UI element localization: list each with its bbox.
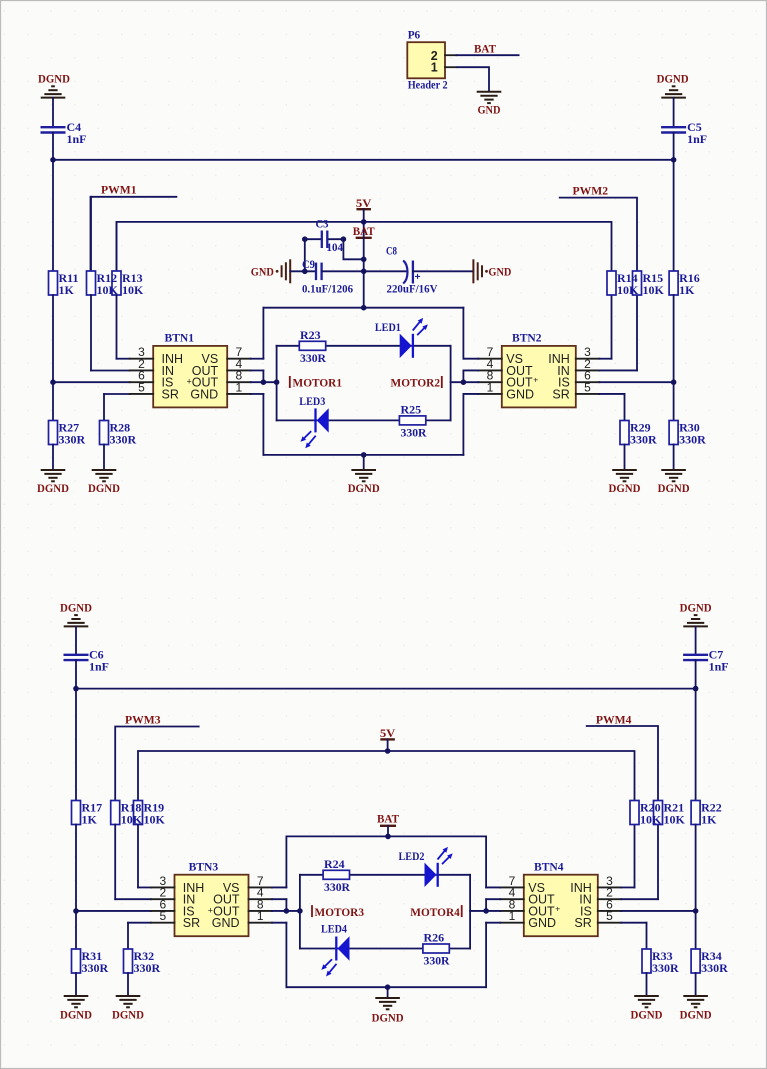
wire <box>673 382 675 420</box>
svg-text:1K: 1K <box>679 283 695 297</box>
LED LED4 <box>321 922 350 977</box>
svg-text:DGND: DGND <box>657 72 689 86</box>
resistor R12 <box>87 271 119 297</box>
wire <box>462 370 464 382</box>
svg-text:GND: GND <box>478 103 501 117</box>
wire <box>328 239 364 259</box>
svg-text:MOTOR3: MOTOR3 <box>315 905 365 919</box>
ground DGND <box>609 470 641 495</box>
resistor R31 <box>72 949 109 975</box>
junction <box>73 686 79 692</box>
wire <box>52 98 54 127</box>
wire BAT <box>363 238 365 308</box>
wire <box>104 393 130 395</box>
svg-text:DGND: DGND <box>348 481 380 495</box>
net label MOTOR4 <box>410 905 461 919</box>
svg-text:DGND: DGND <box>37 481 69 495</box>
pin 6 of BTN4 <box>598 897 622 911</box>
wire <box>116 295 118 359</box>
power port GND (left) <box>251 259 290 283</box>
wire IN <box>621 898 658 900</box>
ground DGND <box>631 996 663 1022</box>
svg-text:C9: C9 <box>302 257 315 271</box>
junction <box>361 452 367 458</box>
pin 2 of BTN2 <box>576 357 600 371</box>
ground DGND <box>372 998 404 1025</box>
wire BAT <box>387 826 389 837</box>
resistor R18 <box>111 800 143 826</box>
svg-text:C3: C3 <box>316 217 329 231</box>
wire <box>646 973 648 996</box>
power port BAT <box>377 812 399 826</box>
svg-text:SR: SR <box>574 916 591 930</box>
resistor R23 <box>299 328 326 365</box>
svg-text:1K: 1K <box>59 283 75 297</box>
IC BTN4 <box>524 859 598 936</box>
svg-text:104: 104 <box>327 240 344 254</box>
wire <box>290 270 315 272</box>
svg-text:DGND: DGND <box>631 1008 663 1022</box>
svg-text:5: 5 <box>584 380 591 394</box>
pin 1 of BTN2 <box>478 380 502 394</box>
resistor R11 <box>49 271 79 297</box>
svg-text:5: 5 <box>159 909 166 923</box>
svg-text:330R: 330R <box>82 961 109 975</box>
junction <box>385 834 391 840</box>
wire 5V rail <box>138 751 635 801</box>
wire IS <box>621 910 695 912</box>
junction <box>302 269 308 275</box>
svg-text:SR: SR <box>162 387 179 401</box>
pin 3 of BTN2 <box>576 345 600 359</box>
svg-text:330R: 330R <box>701 961 728 975</box>
svg-text:BAT: BAT <box>474 42 496 56</box>
junction <box>297 908 303 914</box>
wire <box>673 295 675 382</box>
wire <box>624 394 626 421</box>
junction <box>361 269 367 275</box>
wire IN <box>599 369 637 371</box>
wire <box>277 345 451 347</box>
svg-text:1nF: 1nF <box>67 132 87 146</box>
capacitor C6 <box>64 647 110 673</box>
svg-text:1: 1 <box>431 61 438 75</box>
wire <box>695 825 697 911</box>
IC BTN2 <box>502 331 576 408</box>
wire <box>128 922 151 924</box>
pin 3 of BTN1 <box>130 345 154 359</box>
wire <box>450 346 452 421</box>
wire <box>387 987 389 998</box>
junction <box>361 219 367 225</box>
wire PWM4 <box>586 726 658 801</box>
junction <box>341 236 347 242</box>
svg-text:330R: 330R <box>630 432 657 446</box>
wire <box>462 308 464 359</box>
svg-text:5V: 5V <box>380 726 396 740</box>
svg-text:10K: 10K <box>144 812 166 826</box>
svg-text:1: 1 <box>487 380 494 394</box>
junction <box>261 379 267 385</box>
pin 7 of BTN4 <box>500 874 524 888</box>
svg-text:+: + <box>208 906 213 916</box>
svg-text:C8: C8 <box>386 244 397 258</box>
wire <box>322 270 364 272</box>
svg-text:R25: R25 <box>401 402 422 416</box>
wire MOTOR3 <box>272 910 300 912</box>
svg-text:330R: 330R <box>110 432 137 446</box>
junction <box>50 379 56 385</box>
svg-text:DGND: DGND <box>658 481 690 495</box>
wire <box>285 923 287 988</box>
ground DGND (bottom left) <box>64 615 89 626</box>
resistor R33 <box>642 949 679 975</box>
wire <box>363 209 365 222</box>
wire <box>305 239 322 271</box>
wire OUT <box>463 369 478 371</box>
wire <box>127 923 129 949</box>
svg-text:BAT: BAT <box>353 224 375 238</box>
junction <box>385 984 391 990</box>
pin 1 of BTN4 <box>500 909 524 923</box>
wire GND <box>272 922 286 924</box>
svg-text:Header 2: Header 2 <box>408 78 448 92</box>
wire <box>469 875 471 949</box>
pin 7 of BTN1 <box>227 345 251 359</box>
wire <box>52 382 54 420</box>
wire <box>103 445 105 471</box>
wire <box>52 445 54 471</box>
wire <box>262 394 264 455</box>
svg-text:10K: 10K <box>97 283 119 297</box>
junction <box>693 686 699 692</box>
svg-text:1nF: 1nF <box>89 659 109 673</box>
wire <box>277 419 451 421</box>
pin 8 of BTN4 <box>500 897 524 911</box>
wire <box>127 973 129 996</box>
resistor R27 <box>49 420 86 446</box>
svg-text:PWM1: PWM1 <box>101 183 137 197</box>
svg-text:LED1: LED1 <box>375 320 401 334</box>
resistor R28 <box>100 420 137 446</box>
svg-text:1nF: 1nF <box>687 132 707 146</box>
svg-text:10K: 10K <box>121 812 143 826</box>
svg-text:DGND: DGND <box>609 481 641 495</box>
resistor R29 <box>620 420 657 446</box>
resistor R17 <box>72 800 103 826</box>
svg-text:BTN1: BTN1 <box>165 331 195 345</box>
svg-text:330R: 330R <box>59 432 86 446</box>
ground GND (P6) <box>477 92 502 117</box>
wire <box>262 370 264 382</box>
resistor R19 <box>134 800 166 826</box>
wire PWM3 <box>115 727 199 801</box>
pin 8 of BTN2 <box>478 369 502 383</box>
svg-text:R24: R24 <box>324 857 345 871</box>
wire DGND bottom rail <box>263 454 463 456</box>
power port 5V <box>356 196 372 210</box>
wire <box>363 455 365 470</box>
svg-text:MOTOR2: MOTOR2 <box>391 376 441 390</box>
capacitor C7 <box>683 647 729 673</box>
wire <box>364 270 407 272</box>
wire <box>646 923 648 949</box>
svg-text:1: 1 <box>236 380 243 394</box>
ground DGND <box>680 996 712 1022</box>
resistor R32 <box>124 949 161 975</box>
svg-text:DGND: DGND <box>112 1008 144 1022</box>
junction <box>50 157 56 163</box>
wire <box>76 910 151 912</box>
svg-text:BTN2: BTN2 <box>512 331 542 345</box>
svg-text:5V: 5V <box>356 196 372 210</box>
ground DGND <box>112 996 144 1022</box>
wire <box>462 394 464 455</box>
svg-text:PWM2: PWM2 <box>573 184 609 198</box>
wire <box>75 689 77 801</box>
connector P6 <box>407 28 447 92</box>
wire MOTOR4 <box>470 910 500 912</box>
wire <box>387 739 389 751</box>
svg-text:1K: 1K <box>82 812 98 826</box>
svg-text:LED3: LED3 <box>299 394 325 408</box>
resistor R24 <box>323 857 350 894</box>
pin 7 of BTN2 <box>478 345 502 359</box>
wire <box>634 825 636 888</box>
svg-text:DGND: DGND <box>60 601 92 615</box>
pin 4 of BTN4 <box>500 886 524 900</box>
pin 5 of BTN3 <box>151 909 175 923</box>
wire INH <box>621 886 634 888</box>
svg-text:1: 1 <box>509 909 516 923</box>
junction <box>461 379 467 385</box>
svg-text:+: + <box>533 375 538 385</box>
resistor R22 <box>691 800 722 826</box>
junction <box>284 908 290 914</box>
pin 6 of BTN3 <box>151 897 175 911</box>
svg-text:BAT: BAT <box>377 812 399 826</box>
svg-text:R23: R23 <box>300 328 321 342</box>
svg-text:PWM3: PWM3 <box>125 713 161 727</box>
wire <box>137 825 139 888</box>
svg-text:LED2: LED2 <box>399 849 425 863</box>
svg-text:GND: GND <box>251 265 274 279</box>
wire VS <box>486 886 500 888</box>
svg-text:DGND: DGND <box>38 72 70 86</box>
power port GND (right) <box>473 259 511 283</box>
ground DGND <box>658 470 690 495</box>
pin 2 of BTN4 <box>598 886 622 900</box>
svg-text:330R: 330R <box>424 954 450 968</box>
svg-text:1nF: 1nF <box>709 659 729 673</box>
wire <box>75 825 77 912</box>
svg-text:MOTOR1: MOTOR1 <box>293 376 343 390</box>
wire <box>276 346 278 421</box>
capacitor C9 <box>302 257 353 296</box>
svg-text:SR: SR <box>183 916 200 930</box>
wire <box>90 295 92 371</box>
net label MOTOR1 <box>290 376 342 390</box>
wire MOTOR1 <box>251 381 277 383</box>
wire <box>611 295 613 359</box>
net label MOTOR3 <box>312 905 364 919</box>
wire <box>300 874 470 876</box>
wire <box>695 660 697 689</box>
LED LED1 <box>375 318 428 358</box>
pin 2 of BTN1 <box>130 357 154 371</box>
svg-text:BTN3: BTN3 <box>189 859 219 873</box>
wire SR <box>599 393 624 395</box>
wire <box>624 445 626 471</box>
wire <box>363 222 365 238</box>
junction <box>361 257 367 263</box>
svg-text:10K: 10K <box>617 283 639 297</box>
wire SR <box>621 922 646 924</box>
capacitor C5 <box>661 120 707 146</box>
svg-text:10K: 10K <box>122 283 144 297</box>
ground DGND (top right) <box>661 86 686 97</box>
svg-text:330R: 330R <box>652 961 679 975</box>
wire PWM2 <box>559 198 637 271</box>
svg-text:GND: GND <box>488 265 511 279</box>
junction <box>302 236 308 242</box>
wire GND <box>457 67 490 92</box>
svg-text:LED4: LED4 <box>321 922 347 936</box>
resistor R16 <box>669 271 700 297</box>
junction <box>483 908 489 914</box>
wire <box>695 911 697 949</box>
svg-text:330R: 330R <box>679 432 706 446</box>
wire DGND bottom rail <box>286 986 486 988</box>
pin 5 of BTN1 <box>130 380 154 394</box>
wire <box>485 899 487 911</box>
wire <box>657 825 659 900</box>
wire OUT <box>251 369 264 371</box>
LED LED3 <box>299 394 328 448</box>
junction <box>274 379 280 385</box>
wire <box>90 197 92 271</box>
wire <box>673 445 675 471</box>
ground DGND (top left) <box>41 86 66 97</box>
resistor R14 <box>607 271 639 297</box>
resistor R26 <box>423 931 450 968</box>
wire VS <box>272 886 286 888</box>
wire <box>52 295 54 382</box>
svg-text:10K: 10K <box>664 812 686 826</box>
ground DGND <box>37 470 69 495</box>
wire VS <box>251 358 264 360</box>
pin 4 of BTN3 <box>249 886 273 900</box>
wire <box>75 973 77 996</box>
wire GND <box>463 393 478 395</box>
pin 6 of BTN1 <box>130 369 154 383</box>
wire <box>114 825 116 900</box>
wire <box>75 911 77 949</box>
svg-text:220uF/16V: 220uF/16V <box>387 282 438 296</box>
svg-text:5: 5 <box>138 380 145 394</box>
wire OUT <box>272 898 286 900</box>
wire <box>285 899 287 911</box>
svg-text:R26: R26 <box>424 931 445 945</box>
wire <box>52 133 54 160</box>
pin 8 of BTN3 <box>249 897 273 911</box>
wire GND <box>486 922 500 924</box>
pin 2 of BTN3 <box>151 886 175 900</box>
ground DGND <box>348 470 380 495</box>
pin 4 of BTN2 <box>478 357 502 371</box>
pin 2 of P6 <box>445 54 457 56</box>
capacitor C8 (polarized) <box>386 244 438 296</box>
wire <box>138 886 151 888</box>
wire INH <box>599 358 611 360</box>
svg-text:GND: GND <box>528 916 556 930</box>
svg-text:330R: 330R <box>300 351 326 365</box>
svg-text:1K: 1K <box>701 812 717 826</box>
svg-text:PWM4: PWM4 <box>596 713 632 727</box>
pin 1 of BTN3 <box>249 909 273 923</box>
svg-text:10K: 10K <box>640 812 662 826</box>
net label MOTOR2 <box>391 376 442 390</box>
svg-text:MOTOR4: MOTOR4 <box>410 905 460 919</box>
wire <box>117 358 130 360</box>
wire <box>695 689 697 801</box>
pin 8 of BTN1 <box>227 369 251 383</box>
wire BAT top rail <box>286 835 486 837</box>
wire 5V rail <box>117 222 612 271</box>
wire <box>485 923 487 988</box>
wire <box>413 270 474 272</box>
IC BTN3 <box>175 859 249 936</box>
pin 1 of BTN1 <box>227 380 251 394</box>
wire <box>91 370 130 372</box>
svg-text:BTN4: BTN4 <box>534 859 564 873</box>
svg-text:330R: 330R <box>134 961 161 975</box>
pin 5 of BTN4 <box>598 909 622 923</box>
wire <box>75 660 77 689</box>
svg-text:1: 1 <box>257 909 264 923</box>
wire IS <box>599 381 673 383</box>
pin 6 of BTN2 <box>576 369 600 383</box>
wire <box>103 394 105 421</box>
LED LED2 <box>399 847 453 887</box>
wire <box>75 627 77 655</box>
wire <box>285 836 287 887</box>
pin 7 of BTN3 <box>249 874 273 888</box>
wire BAT top rail <box>263 307 463 309</box>
junction <box>671 157 677 163</box>
svg-text:+: + <box>555 904 560 914</box>
pin 3 of BTN4 <box>598 874 622 888</box>
resistor R15 <box>633 271 665 297</box>
wire <box>485 836 487 887</box>
svg-text:SR: SR <box>552 387 569 401</box>
wire GND <box>251 393 264 395</box>
wire BAT <box>457 54 519 56</box>
resistor R20 <box>630 800 662 826</box>
ground DGND <box>88 470 120 495</box>
svg-text:DGND: DGND <box>60 1008 92 1022</box>
pin 3 of BTN3 <box>151 874 175 888</box>
junction <box>73 908 79 914</box>
svg-text:330R: 330R <box>324 880 350 894</box>
wire <box>300 948 470 950</box>
capacitor C3 <box>316 217 344 255</box>
wire <box>262 308 264 359</box>
wire OUT <box>486 898 500 900</box>
svg-text:P6: P6 <box>408 28 421 42</box>
svg-text:GND: GND <box>506 387 534 401</box>
junction <box>361 305 367 311</box>
